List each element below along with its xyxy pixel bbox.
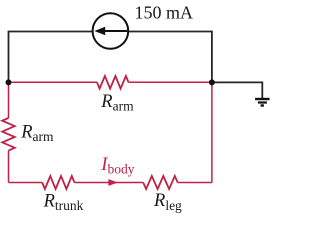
wire right black (top-right corner down to node B) (211, 31, 213, 83)
svg-text:Rarm: Rarm (100, 92, 134, 114)
wire red bottom (left lead) (9, 182, 43, 184)
svg-text:150 mA: 150 mA (135, 3, 194, 23)
node A (left junction) (6, 79, 12, 85)
wire red bottom (middle) (75, 182, 144, 184)
wire red left (upper lead) (8, 82, 10, 118)
resistor R_leg (143, 176, 178, 189)
svg-text:Rarm: Rarm (20, 122, 54, 144)
wire red left (lower lead) (8, 151, 10, 183)
resistor R_trunk (42, 176, 74, 189)
resistor R_arm (top) (97, 76, 129, 89)
wire ground lead (node B to ground) (211, 82, 262, 98)
svg-text:Rleg: Rleg (153, 191, 182, 213)
svg-text:Rtrunk: Rtrunk (43, 191, 84, 213)
wire top (black, node A to node B through source) (9, 31, 212, 33)
current source (150 mA) (93, 13, 129, 49)
wire red right (211, 82, 213, 182)
node B (right junction) (209, 79, 215, 85)
ground (255, 99, 269, 106)
current arrow I_body (108, 179, 118, 186)
svg-text:Ibody: Ibody (100, 155, 134, 177)
wire red bottom (right lead) (178, 182, 212, 184)
wire left black (top-left corner down to node A) (8, 31, 10, 83)
wire red top (right lead) (129, 81, 212, 83)
wire red top (left lead) (9, 81, 98, 83)
resistor R_arm (left) (2, 118, 15, 151)
